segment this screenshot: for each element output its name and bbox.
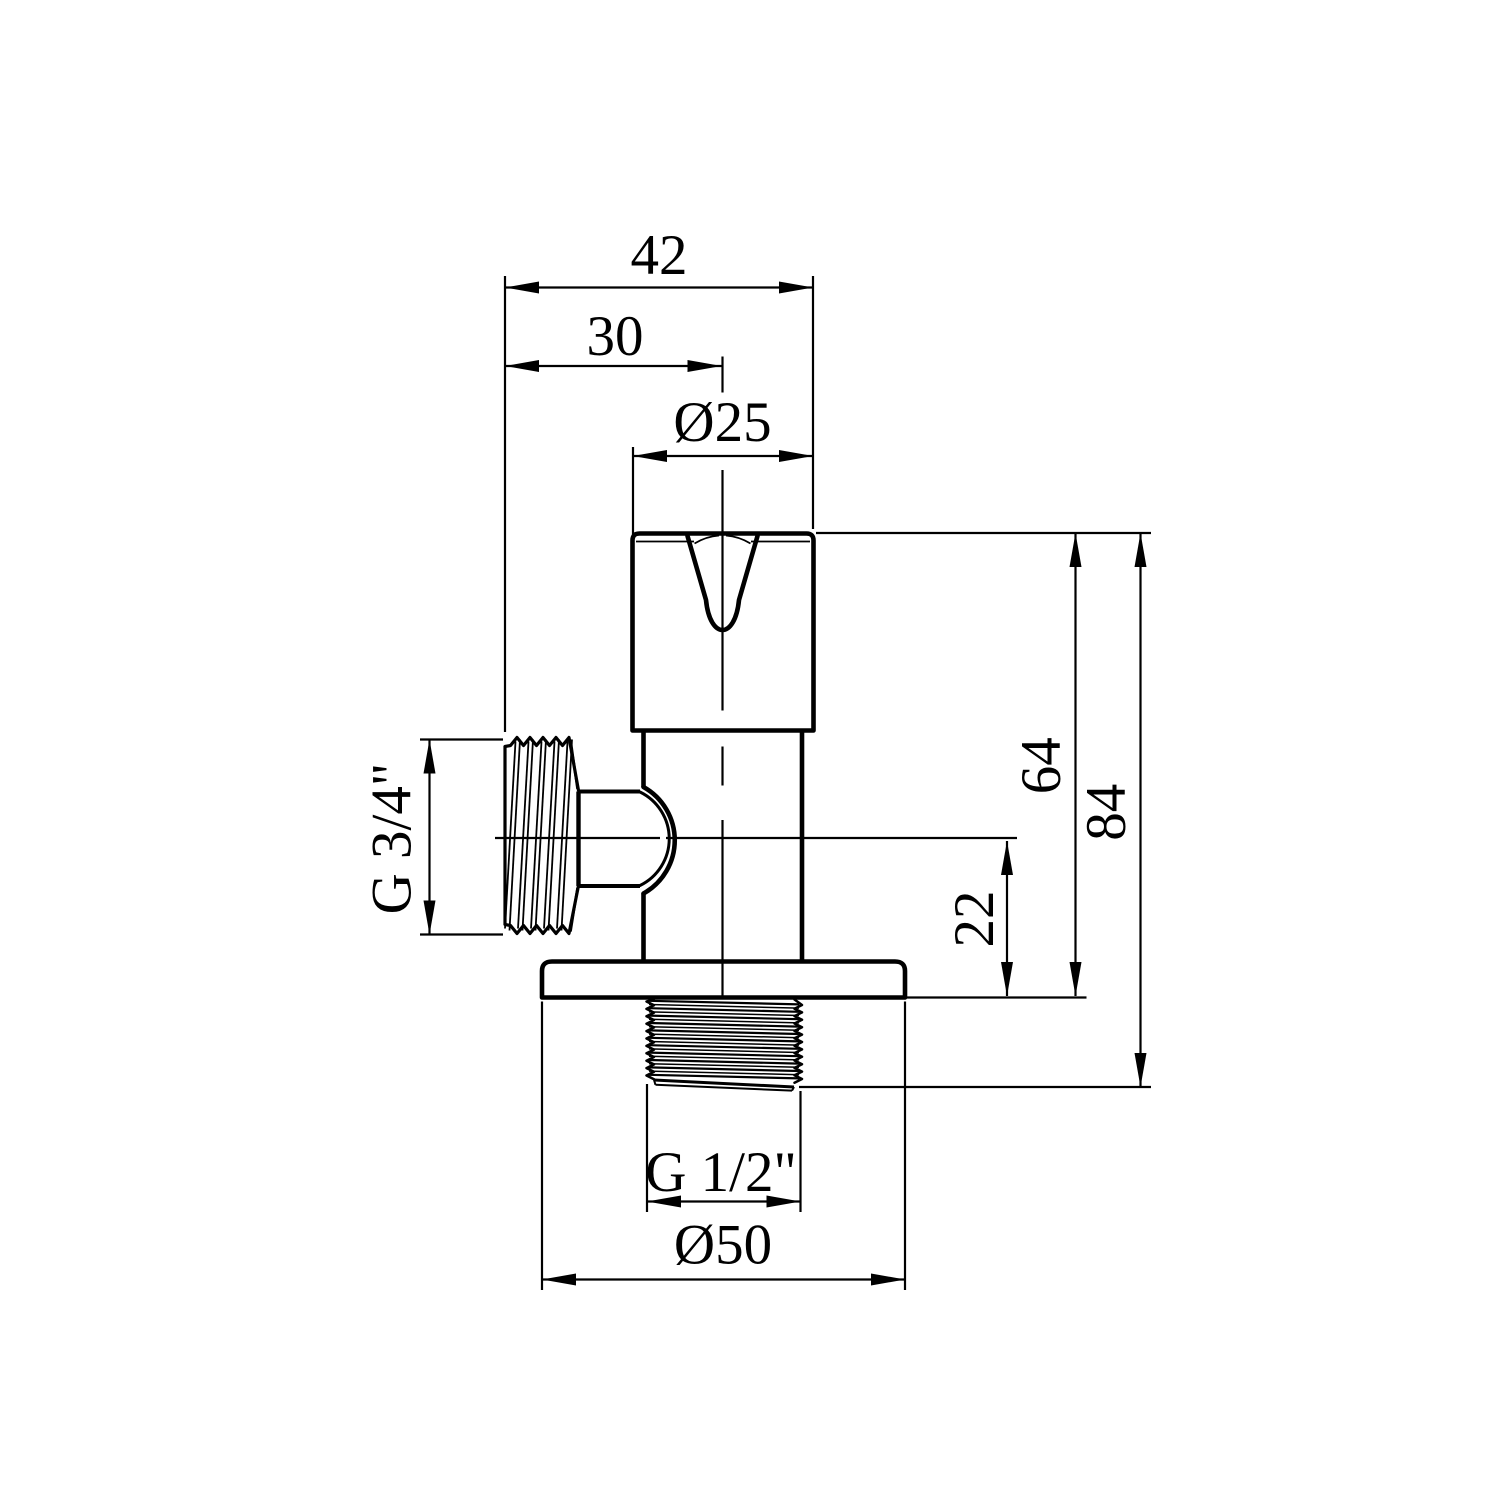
dimension 42 <box>505 224 813 732</box>
svg-text:22: 22 <box>943 891 1006 948</box>
svg-text:30: 30 <box>587 305 644 368</box>
extension line thread bottom <box>799 1086 1151 1088</box>
dimension Ø25 <box>633 391 813 536</box>
svg-text:Ø25: Ø25 <box>673 391 771 454</box>
handle V-notch <box>688 536 758 630</box>
dimension G 1/2" <box>645 1084 800 1212</box>
bottom thread G 1/2 <box>647 999 803 1091</box>
handle outline <box>633 534 814 731</box>
extension line handle top <box>816 532 1151 534</box>
svg-text:42: 42 <box>631 224 688 287</box>
svg-text:G 1/2": G 1/2" <box>645 1141 797 1204</box>
svg-text:Ø50: Ø50 <box>674 1214 772 1277</box>
dimension 30 <box>505 305 723 393</box>
dimension 84 <box>1075 533 1147 1087</box>
dimension G 3/4" <box>361 740 504 935</box>
side outlet thread G 3/4 <box>505 738 579 934</box>
side outlet neck <box>579 792 641 887</box>
vertical center line <box>721 470 723 998</box>
extension line flange bottom <box>906 996 1087 998</box>
valve body stem <box>644 731 803 962</box>
dimension 64 <box>1010 533 1082 996</box>
svg-text:G 3/4": G 3/4" <box>361 763 424 915</box>
dimension 22 <box>943 841 1013 996</box>
dimension Ø50 <box>542 1002 905 1291</box>
horizontal center line (side port axis) <box>495 837 1017 839</box>
svg-text:64: 64 <box>1010 737 1073 794</box>
handle top chamfer line <box>636 536 810 544</box>
wall flange <box>542 962 905 998</box>
svg-text:84: 84 <box>1075 784 1138 841</box>
side outlet dome <box>640 787 675 894</box>
